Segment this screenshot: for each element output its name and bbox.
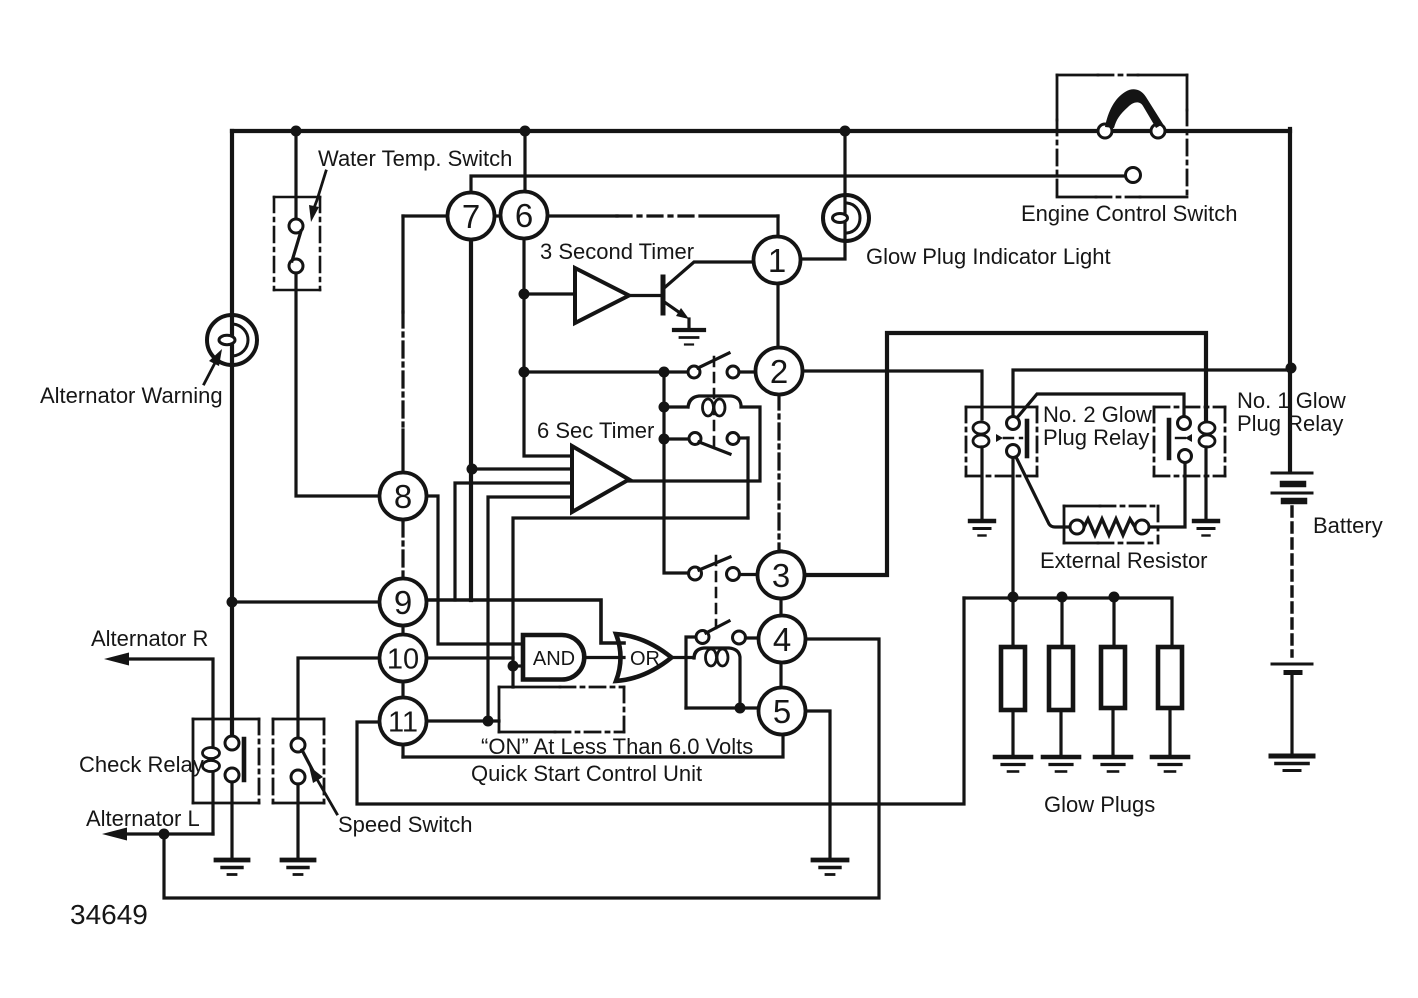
glow plug 1 — [1001, 647, 1025, 710]
wire amp input 4 riser — [488, 497, 572, 721]
junction 6-wire / relay switch feed — [519, 367, 530, 378]
junction glow plug 1 — [1008, 592, 1019, 603]
relay switch at terminal 3 — [689, 557, 758, 581]
wire glow plug 2 to ground — [1059, 710, 1062, 754]
arrow to speed switch — [309, 766, 337, 814]
check relay contacts — [225, 736, 244, 782]
wire 6-wire to relay contact 2 — [524, 370, 688, 373]
quick start control unit right edge — [776, 216, 779, 394]
wire terminal 11 to threshold box — [426, 719, 499, 722]
wire OR output to relay coil — [672, 656, 695, 659]
wire AND gate lower input stub — [513, 664, 523, 667]
wire check relay contact to ground — [230, 782, 233, 857]
6 sec timer amplifier — [572, 446, 629, 512]
wire AND output to OR — [585, 656, 624, 659]
transistor Q1 — [629, 262, 753, 328]
svg-text:OR: OR — [630, 648, 660, 670]
no.2 glow plug relay box — [966, 407, 1037, 476]
wire top supply bus — [232, 129, 1290, 133]
speed switch box — [273, 719, 324, 803]
relay lower switch — [664, 433, 748, 455]
OR gate U2 — [616, 634, 672, 681]
junction top bus / terminal 6 — [520, 126, 531, 137]
svg-text:Engine Control Switch: Engine Control Switch — [1021, 201, 1237, 226]
no.1 relay contacts — [1169, 417, 1192, 463]
svg-text:Glow Plugs: Glow Plugs — [1044, 792, 1155, 817]
battery — [1272, 473, 1312, 753]
wire relay bottom to terminal 5 — [686, 706, 758, 709]
relay coil K1 — [664, 396, 760, 481]
glow plug 4 — [1158, 647, 1182, 708]
junction relay feed — [659, 367, 670, 378]
junction glow plug 2 — [1057, 592, 1068, 603]
relay coil K2 — [694, 648, 740, 703]
glow plug 2 — [1049, 647, 1073, 710]
wire amp input 3 riser — [455, 483, 572, 600]
engine control switch actuator — [1105, 89, 1163, 128]
no.1 relay coil — [1176, 422, 1215, 518]
glow plug 3 — [1101, 647, 1125, 708]
svg-text:AND: AND — [533, 648, 575, 670]
svg-text:7: 7 — [462, 198, 480, 235]
ground glow plug 3 — [1095, 757, 1131, 772]
svg-text:3: 3 — [772, 557, 790, 594]
wire glow plug 3 drop — [1112, 597, 1115, 647]
wire 6 sec timer output — [629, 479, 748, 482]
svg-text:Check Relay: Check Relay — [79, 752, 204, 777]
quick start control unit bottom edge — [403, 735, 783, 757]
svg-text:3 Second Timer: 3 Second Timer — [540, 239, 694, 264]
relay switch at terminal 4 — [686, 621, 759, 708]
svg-text:Battery: Battery — [1313, 513, 1383, 538]
svg-text:Water Temp. Switch: Water Temp. Switch — [318, 146, 512, 171]
no.2 relay coil — [973, 422, 1022, 518]
wire terminal 7 up and across to engine control switch — [471, 176, 1126, 193]
wire no.2 relay contact to battery junction — [1013, 370, 1291, 417]
ground speed switch — [282, 860, 314, 875]
external resistor R1 — [1084, 519, 1135, 535]
wire terminal 8 to AND gate — [427, 496, 523, 644]
wire terminal 3 to no.1 relay coil — [805, 333, 1206, 575]
speed switch contacts and blade — [291, 738, 313, 784]
check relay coil — [203, 719, 220, 834]
ground glow plug 2 — [1043, 757, 1079, 772]
junction amp input 4 / terminal 11 wire — [483, 716, 494, 727]
svg-text:34649: 34649 — [70, 899, 148, 930]
check relay box — [193, 719, 259, 803]
terminal 8 — [380, 473, 427, 520]
terminal 5 — [759, 688, 806, 735]
arrow to water temp switch — [309, 171, 326, 222]
relay switch at terminal 2 — [688, 353, 739, 378]
junction lower contact feed — [659, 434, 670, 445]
junction glow plug 3 — [1109, 592, 1120, 603]
wire terminal 10 to AND column — [426, 656, 513, 659]
ground no.1 relay coil — [1194, 521, 1218, 536]
junction 6-wire / 3 second timer input — [519, 289, 530, 300]
wire terminal 4 loop to alternator L junction — [164, 639, 879, 898]
ground battery — [1271, 756, 1313, 771]
svg-text:6: 6 — [515, 197, 533, 234]
wire glow plug 2 drop — [1060, 597, 1063, 647]
terminal 6 — [501, 192, 548, 239]
wire top bus to water temp switch — [294, 131, 297, 220]
wire alternator L — [102, 828, 213, 841]
external resistor box — [1064, 506, 1158, 543]
AND gate U1 — [523, 635, 584, 680]
arrow to alternator warning lamp — [204, 349, 222, 384]
svg-text:“ON” At Less Than 6.0 Volts: “ON” At Less Than 6.0 Volts — [481, 734, 753, 759]
wire speed switch to terminal 10 — [298, 658, 379, 738]
svg-text:Plug Relay: Plug Relay — [1043, 425, 1149, 450]
wire no.2 contact to external resistor — [1016, 457, 1070, 527]
wire terminal 9 to OR gate — [427, 600, 624, 643]
junction 7-wire / amp input — [467, 464, 478, 475]
junction left feed / terminal 9 — [227, 597, 238, 608]
ground check relay — [216, 860, 248, 875]
alternator warning lamp — [207, 315, 257, 365]
wire terminal 11 around to glow plug bus — [357, 598, 964, 804]
wire amp input 2 — [472, 467, 572, 470]
wire switch to terminal 2 — [739, 370, 756, 373]
svg-text:2: 2 — [770, 353, 788, 390]
wire right feed down to battery junction — [1288, 129, 1292, 470]
svg-text:5: 5 — [773, 693, 791, 730]
svg-text:No. 2 Glow: No. 2 Glow — [1043, 402, 1152, 427]
wire left feed from top bus down to check relay — [230, 131, 234, 737]
terminal 4 — [759, 616, 806, 663]
wire lower switch down leg — [746, 438, 749, 518]
water temp switch contacts and blade — [289, 219, 303, 273]
wire top bus to glow plug indicator light — [801, 131, 845, 259]
no.1 glow plug relay box — [1154, 407, 1225, 476]
wire water temp switch to terminal 8 — [296, 273, 379, 496]
wire no.1 contact to external resistor — [1149, 463, 1185, 527]
terminal 7 — [448, 193, 495, 240]
engine control switch contacts — [1098, 124, 1165, 183]
svg-text:No. 1 Glow: No. 1 Glow — [1237, 388, 1346, 413]
glow plug indicator light — [823, 195, 869, 241]
svg-text:External Resistor: External Resistor — [1040, 548, 1208, 573]
svg-text:1: 1 — [768, 242, 786, 279]
wire speed switch to ground — [296, 784, 299, 857]
terminal 9 — [380, 579, 427, 626]
terminal 3 — [758, 552, 805, 599]
quick start control unit top edge — [403, 214, 617, 217]
terminal 11 — [380, 698, 427, 745]
terminal 1 — [754, 237, 801, 284]
wire glow plug 1 to ground — [1011, 710, 1014, 754]
threshold detector box — [499, 687, 624, 732]
ground transistor emitter — [674, 330, 704, 345]
wire alternator R — [104, 653, 213, 720]
svg-text:6 Sec Timer: 6 Sec Timer — [537, 418, 654, 443]
svg-text:4: 4 — [773, 621, 791, 658]
junction top bus / indicator lamp — [840, 126, 851, 137]
wire no.2 contact down to glow plug bus — [1011, 458, 1014, 647]
svg-text:Alternator L: Alternator L — [86, 806, 200, 831]
engine control switch box — [1057, 75, 1187, 197]
junction coil feed — [659, 402, 670, 413]
wire relay left leg — [664, 372, 689, 573]
wire no.2 contact to no.1 contact — [1016, 394, 1184, 419]
quick start control unit left edge — [401, 216, 404, 312]
wire terminal 7 down leg — [469, 240, 473, 600]
svg-text:9: 9 — [394, 584, 412, 621]
wire junction to terminal 9 — [232, 600, 379, 603]
wire glow plug 4 to ground — [1168, 708, 1171, 754]
junction battery feed — [1286, 363, 1297, 374]
svg-text:Alternator R: Alternator R — [91, 626, 208, 651]
svg-text:11: 11 — [388, 707, 418, 739]
svg-text:8: 8 — [394, 478, 412, 515]
svg-text:Quick Start Control Unit: Quick Start Control Unit — [471, 761, 702, 786]
junction alternator L / bottom loop — [159, 829, 170, 840]
wire to 3 second timer amplifier — [524, 292, 575, 295]
terminal 2 — [756, 348, 803, 395]
wire terminal 2 to no.2 relay coil — [803, 371, 982, 419]
terminal 10 — [380, 635, 427, 682]
junction coil return / terminal 5 wire — [735, 703, 746, 714]
junction top bus / water temp switch — [291, 126, 302, 137]
svg-text:10: 10 — [387, 644, 419, 676]
wire terminal 6 up to top bus — [523, 131, 526, 192]
svg-text:Speed Switch: Speed Switch — [338, 812, 473, 837]
ground terminal 5 — [813, 860, 847, 875]
svg-text:Plug Relay: Plug Relay — [1237, 411, 1343, 436]
no.2 relay contacts — [1007, 417, 1028, 458]
wire feedback to AND gate column — [513, 518, 748, 687]
ground no.2 relay coil — [970, 521, 994, 536]
ground glow plug 4 — [1152, 757, 1188, 772]
svg-text:Glow Plug Indicator Light: Glow Plug Indicator Light — [866, 244, 1111, 269]
wire terminal 6 down to 6 sec timer input — [524, 239, 572, 456]
relay linkage dashes — [713, 357, 716, 450]
wire terminal 5 to ground — [806, 711, 830, 857]
junction AND gate input — [508, 661, 519, 672]
3 second timer amplifier — [575, 268, 629, 323]
svg-text:Alternator Warning: Alternator Warning — [40, 383, 223, 408]
ground glow plug 1 — [995, 757, 1031, 772]
glow plug bus — [964, 598, 1172, 647]
water temp switch box — [274, 197, 320, 290]
wire glow plug 3 to ground — [1111, 708, 1114, 754]
